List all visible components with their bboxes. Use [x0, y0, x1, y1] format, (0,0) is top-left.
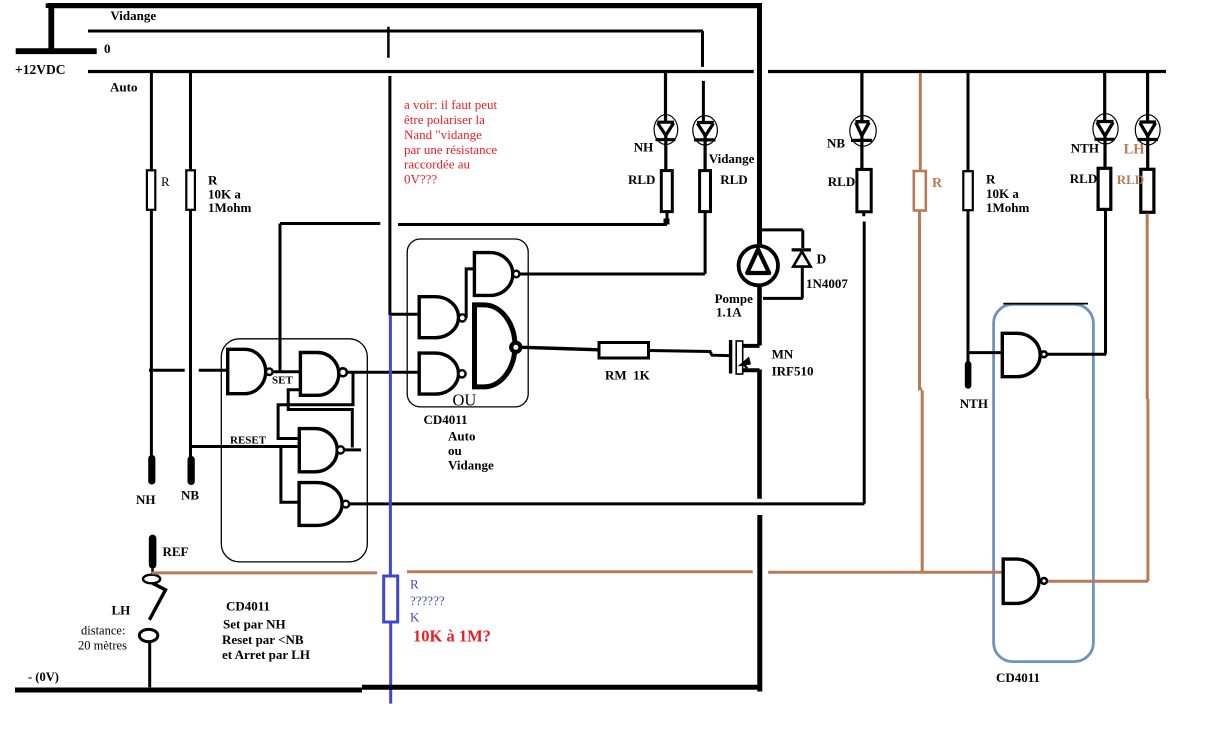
svg-text:Vidange: Vidange	[448, 458, 494, 473]
svg-text:??????: ??????	[410, 593, 445, 608]
LED vidange circle	[693, 116, 718, 145]
LED NH circle	[654, 115, 678, 145]
wire: brown from blue box gate output	[1047, 214, 1148, 582]
svg-text:NH: NH	[634, 140, 654, 155]
junction tick on 0 rail at x=388	[387, 27, 390, 58]
resistor RLD (NTH)	[1098, 168, 1111, 209]
transistor MN IRF510 drain lead	[743, 344, 760, 348]
svg-text:LH: LH	[1124, 142, 1146, 158]
switch LH contact ring top	[143, 575, 160, 584]
wire: LED LH to RLD	[1146, 135, 1149, 170]
transistor MN IRF510 source lead	[743, 368, 760, 372]
box: OU CD4011 rounded rect	[407, 239, 528, 407]
svg-text:RLD: RLD	[1117, 172, 1144, 187]
electrode NTH	[965, 361, 972, 389]
wire: vidange command horizontal (y=224) left part	[280, 222, 380, 225]
svg-text:Set par NH: Set par NH	[223, 617, 286, 632]
LED vidange bar	[694, 138, 716, 141]
wire: brown LH line middle section	[407, 570, 753, 573]
wire: LH LED column from +12V	[1146, 72, 1149, 123]
svg-text:RESET: RESET	[230, 435, 267, 447]
svg-text:raccordée au: raccordée au	[404, 157, 471, 172]
wire: +12V rail (right of thick vertical)	[768, 70, 1166, 73]
ground bus - (0V) thick bottom	[15, 688, 362, 693]
svg-text:IRF510: IRF510	[772, 364, 814, 379]
svg-text:Auto: Auto	[448, 429, 475, 444]
wire: NB divider column top	[189, 72, 192, 171]
wire: NH divider column bottom	[150, 210, 153, 456]
svg-text:CD4011: CD4011	[424, 412, 468, 427]
electrode NH	[148, 455, 155, 485]
wire: RM to MOSFET gate	[649, 351, 730, 356]
svg-text:R: R	[208, 173, 218, 188]
wire: thick vertical lower section to 0V bus	[757, 515, 762, 692]
svg-text:NH: NH	[136, 492, 156, 507]
wire: brown pullup column top	[919, 73, 922, 171]
svg-text:LH: LH	[112, 603, 131, 618]
svg-text:0: 0	[104, 41, 111, 56]
resistor R ?????? K (blue)	[384, 576, 398, 622]
NAND gate 4 (LH inverter)	[299, 483, 342, 526]
wire: NH divider column top	[150, 72, 153, 171]
svg-text:NB: NB	[827, 135, 845, 150]
resistor R (brown)	[914, 171, 926, 211]
diode D 1N4007 triangle	[793, 252, 811, 267]
wire: branch to OU middle gate input	[390, 313, 419, 316]
resistor RM 1K	[599, 343, 649, 359]
svg-text:RLD: RLD	[828, 174, 855, 189]
svg-text:10K a: 10K a	[986, 186, 1019, 201]
electrode NB	[188, 456, 195, 485]
NAND gate 2 (latch Q)	[300, 353, 338, 396]
pump motor circle	[739, 246, 778, 285]
LED vidange triangle	[697, 123, 714, 136]
wire: SET-node vertical drop into latch	[279, 224, 282, 372]
wire: diode branch bottom	[763, 267, 803, 299]
svg-text:CD4011: CD4011	[996, 670, 1040, 685]
wire: LED vidange to RLD	[703, 135, 706, 171]
svg-text:NTH: NTH	[1071, 141, 1099, 156]
wire: OU big gate output to RM resistor	[522, 347, 599, 350]
wire: feedback gate3 out to gate2 in	[288, 390, 352, 448]
wire: gate1 output to gate2 input	[273, 370, 301, 373]
NAND gate 3 (latch reset)	[299, 429, 337, 472]
wire: NB divider column bottom	[189, 210, 192, 457]
svg-text:Nand "vidange: Nand "vidange	[404, 127, 482, 142]
wire: NTH divider column top	[967, 72, 970, 172]
svg-text:0V???: 0V???	[404, 172, 437, 187]
wire: diode branch top	[761, 230, 803, 248]
NAND gate right-top (NTH)	[1002, 333, 1040, 376]
LED NH triangle	[657, 122, 674, 135]
svg-text:Reset par <NB: Reset par <NB	[222, 632, 304, 647]
svg-text:MN: MN	[772, 347, 794, 362]
wire: switch to 0V bus	[148, 642, 151, 688]
svg-text:a voir: il faut peut: a voir: il faut peut	[404, 97, 498, 112]
NAND gate right-bottom (LH)	[1003, 559, 1039, 603]
LED LH triangle	[1140, 122, 1157, 136]
wire: 0 rail	[88, 30, 703, 33]
box: CD4011 latch rounded rect	[221, 339, 367, 562]
LED LH circle	[1135, 115, 1160, 145]
svg-text:+12VDC: +12VDC	[15, 62, 65, 77]
switch LH contact ring bottom	[139, 629, 157, 641]
svg-text:OU: OU	[453, 390, 477, 409]
wire: RESET drop to gate4 input	[281, 447, 299, 503]
diode D 1N4007 cathode bar	[792, 248, 811, 251]
LED NH bar	[656, 138, 676, 141]
NAND gate OU top (vidange)	[474, 253, 512, 296]
svg-text:REF: REF	[163, 544, 189, 559]
resistor R 10K a 1Mohm (NB divider)	[186, 170, 195, 210]
wire: blue vertical below resistor	[389, 622, 392, 704]
svg-text:R: R	[986, 172, 996, 187]
wire: OU top gate output to vidange RLD column	[519, 273, 705, 276]
NAND gate OU middle-left	[419, 297, 458, 338]
svg-text:par une résistance: par une résistance	[404, 142, 497, 157]
wire: brown LH line right section	[768, 571, 1003, 574]
wire: brown LH line left section	[152, 571, 378, 574]
wire: +12V rail (left of thick vertical)	[88, 70, 754, 73]
wire: NB LED column from +12V	[860, 72, 863, 123]
svg-text:RLD: RLD	[1070, 171, 1097, 186]
box: CD4011 right rounded rect (steel blue)	[994, 304, 1094, 661]
wire: NH node to gate1 input (two segments with gap at NB column)	[149, 369, 228, 372]
svg-text:NB: NB	[181, 488, 199, 503]
wire: thick vertical (vidange net) top section	[757, 4, 762, 247]
svg-text:1Mohm: 1Mohm	[986, 200, 1030, 215]
wire: middle gate output up to top gate input	[466, 269, 474, 318]
svg-text:CD4011: CD4011	[226, 599, 270, 614]
wire: vidange LED column from 0 rail	[701, 31, 705, 122]
svg-text:R: R	[410, 577, 419, 592]
wire: latch output to OU gate input	[347, 371, 419, 374]
NAND gate OU big (thick)	[475, 305, 515, 387]
svg-text:1.1A: 1.1A	[716, 305, 742, 320]
svg-text:D: D	[817, 252, 827, 267]
LED NTH circle	[1093, 114, 1118, 144]
wire: RESET line from NB column to gate3	[191, 445, 300, 448]
wire: NTH LED column from +12V	[1103, 72, 1106, 122]
resistor RLD (NH)	[661, 171, 672, 212]
transistor MN IRF510 arrow	[738, 357, 752, 367]
transistor MN IRF510 gate bar	[729, 340, 732, 374]
wire: MOSFET source down (thick)	[757, 370, 762, 499]
wire: blue vertical to bottom resistor	[389, 315, 392, 576]
svg-text:RM 1K: RM 1K	[605, 368, 651, 383]
LED NB circle	[850, 116, 876, 147]
svg-text:K: K	[410, 610, 420, 625]
svg-text:Auto: Auto	[110, 80, 137, 95]
electrode REF	[149, 535, 157, 569]
svg-text:Vidange: Vidange	[709, 151, 755, 166]
NAND gate 1 (SET inverter)	[228, 349, 266, 393]
wire: NTH node to blue box gate input	[968, 351, 1002, 354]
svg-text:SET: SET	[272, 375, 293, 387]
pump triangle	[747, 249, 769, 273]
wire: stub from NH RLD bottom + junction blob	[666, 212, 669, 225]
LED NTH bar	[1095, 138, 1115, 141]
wire: pump bottom to MOSFET drain (thick)	[757, 285, 762, 346]
wire: REF to switch contact	[151, 569, 154, 575]
svg-text:R: R	[932, 176, 943, 191]
resistor RLD (LH)	[1141, 169, 1154, 212]
svg-text:distance:: distance:	[81, 624, 125, 638]
resistor R (NH divider)	[147, 170, 155, 210]
svg-text:1N4007: 1N4007	[806, 276, 848, 291]
switch LH lever	[149, 583, 165, 620]
svg-text:RLD: RLD	[720, 172, 747, 187]
svg-text:1Mohm: 1Mohm	[208, 200, 252, 215]
wire: vidange command horizontal (y=224) right part	[398, 223, 667, 226]
wire: mid vertical from 0 rail (black upper part)	[388, 76, 391, 315]
wire: top Vidange drain bus (thick)	[48, 3, 762, 8]
wire: gate4 output long run to right	[349, 502, 864, 505]
svg-text:ou: ou	[448, 443, 462, 458]
svg-text:10K à 1M?: 10K à 1M?	[413, 627, 491, 646]
node +12VDC supply entry stub	[16, 3, 97, 51]
NAND gate OU bottom-left	[419, 353, 458, 394]
svg-text:RLD: RLD	[628, 172, 655, 187]
wire: RLD vidange down to OU output line	[704, 212, 707, 274]
resistor R 10K a 1Mohm (NTH)	[963, 171, 973, 210]
wire: LED NTH to RLD	[1103, 134, 1106, 168]
svg-text:et Arret par LH: et Arret par LH	[222, 647, 310, 662]
LED NTH triangle	[1097, 122, 1114, 136]
svg-text:NTH: NTH	[960, 396, 988, 411]
wire: RLD NB down to gate4 output line	[862, 212, 865, 504]
transistor MN IRF510 channel	[736, 341, 743, 374]
svg-text:- (0V): - (0V)	[28, 670, 59, 684]
wire: NH LED column from +12V	[664, 72, 667, 123]
LED NB triangle	[855, 122, 869, 136]
svg-text:être polariser la: être polariser la	[404, 112, 485, 127]
svg-text:R: R	[161, 174, 170, 189]
wire: right-top gate output to RLD NTH	[1047, 353, 1106, 356]
wire: feedback gate2 out to gate3 in	[278, 372, 353, 438]
wire: LED NH to RLD	[664, 134, 667, 171]
LED LH bar	[1138, 138, 1159, 141]
resistor RLD (NB)	[857, 169, 871, 211]
svg-text:Vidange: Vidange	[110, 8, 156, 23]
resistor RLD (vidange)	[700, 171, 711, 212]
svg-text:20 mètres: 20 mètres	[78, 639, 127, 653]
wire: NTH column bottom	[967, 210, 970, 361]
wire: gate3 output stub	[344, 448, 361, 451]
wire: LED NB to RLD	[860, 134, 863, 169]
wire: RLD NTH down to gate output	[1104, 209, 1107, 354]
wire: brown pullup column bottom	[920, 211, 923, 573]
LED NB bar	[851, 139, 872, 142]
